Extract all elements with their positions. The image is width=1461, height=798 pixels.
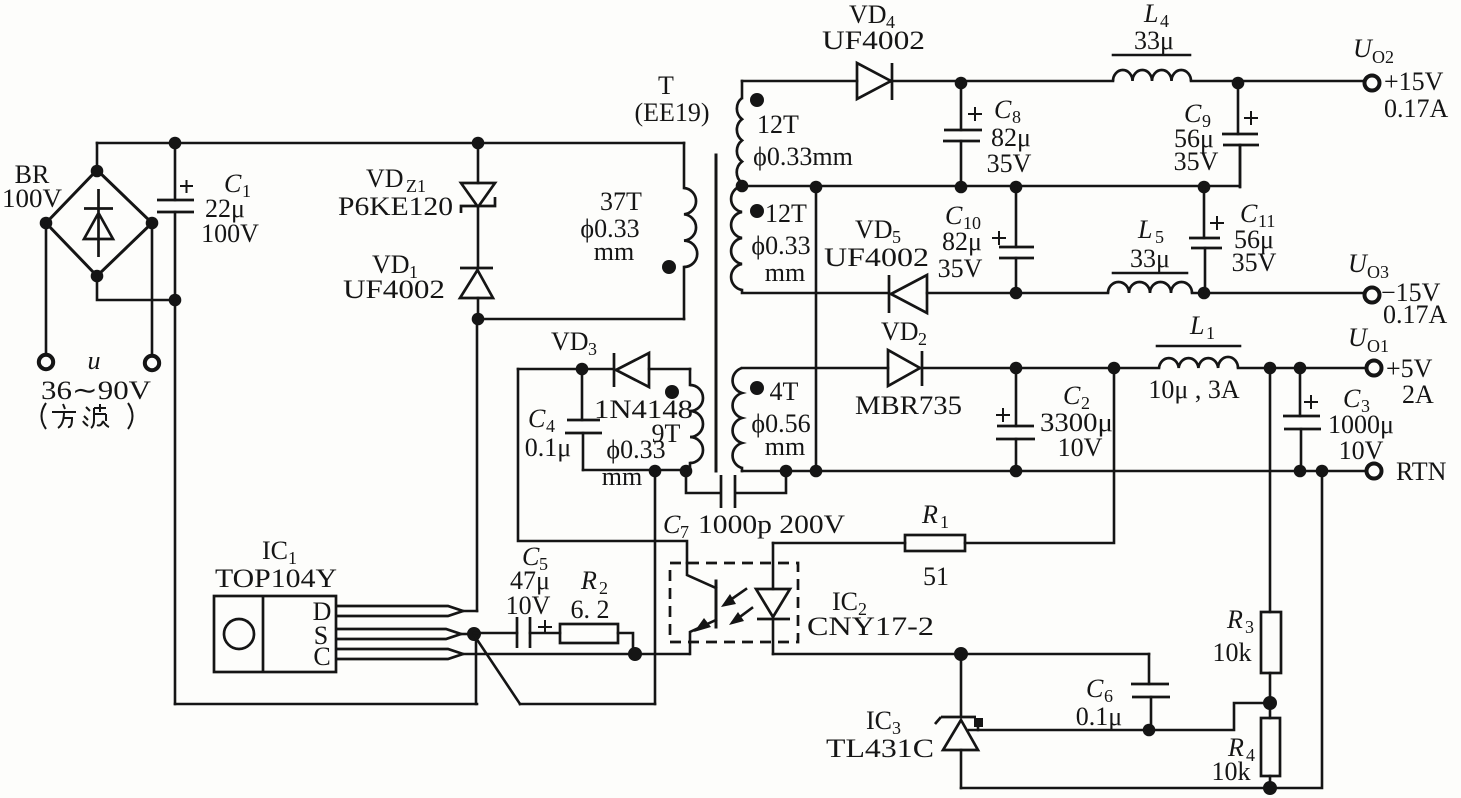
- svg-text:VD: VD: [551, 327, 589, 356]
- svg-text:2A: 2A: [1402, 380, 1434, 409]
- label C1 22u 100V: [201, 169, 259, 248]
- inductor L1 10u 3A: [1157, 346, 1240, 368]
- svg-text:VD: VD: [366, 164, 404, 193]
- wire collector link from VD3 node: [518, 369, 687, 563]
- optocoupler IC2 dashed box: [670, 563, 798, 642]
- label L4 33u: [1134, 0, 1174, 55]
- svg-text:1: 1: [940, 512, 949, 532]
- diode VD5 UF4002: [889, 275, 927, 313]
- pin D lead: [336, 606, 477, 616]
- label C9 56u 35V: [1174, 99, 1219, 176]
- label UO2 +15V 0.17A: [1353, 34, 1449, 123]
- inductor L4 33u: [1113, 55, 1191, 81]
- label L1 10u 3A: [1148, 311, 1239, 404]
- node RTN C3 bottom: [1294, 465, 1307, 478]
- node C8 top: [955, 77, 968, 90]
- capacitor C8 82u 35V: [943, 81, 982, 187]
- svg-text:TOP104Y: TOP104Y: [215, 564, 337, 593]
- capacitor C6 0.1u: [1131, 654, 1170, 730]
- node R2 to control: [628, 647, 642, 661]
- label IC1 TOP104Y: [215, 536, 337, 593]
- svg-text:0.1μ: 0.1μ: [525, 433, 571, 462]
- wire bias return riser to bottom rail: [654, 471, 657, 704]
- svg-text:C: C: [1086, 674, 1104, 703]
- svg-text:33μ: 33μ: [1130, 244, 1170, 273]
- pin S lead: [336, 629, 474, 639]
- svg-text:+5V: +5V: [1386, 354, 1433, 383]
- bias winding 9T: [690, 369, 703, 470]
- svg-text:7: 7: [680, 522, 689, 542]
- label u 36~90V (square wave): [41, 346, 151, 405]
- svg-text:IC: IC: [866, 706, 892, 735]
- svg-text:10k: 10k: [1212, 757, 1251, 786]
- shunt regulator IC3 TL431C: [935, 654, 983, 788]
- node TL431 cathode junction: [954, 647, 968, 661]
- svg-text:C: C: [945, 201, 963, 230]
- svg-text:VD: VD: [849, 0, 887, 29]
- label R3 10k: [1213, 605, 1255, 667]
- label BR 100V: [2, 160, 62, 213]
- node RTN feedback riser: [1316, 465, 1329, 478]
- svg-text:35V: 35V: [1232, 248, 1277, 277]
- diode VD1 UF4002: [460, 268, 493, 319]
- svg-text:+15V: +15V: [1384, 67, 1444, 96]
- svg-text:0.1μ: 0.1μ: [1076, 702, 1122, 731]
- primary phasing dot: [662, 260, 676, 274]
- capacitor C5 47u 10V: [474, 617, 560, 648]
- svg-text:ϕ0.33: ϕ0.33: [751, 231, 810, 260]
- wire drain riser to IC1 D pin: [476, 319, 479, 611]
- svg-text:T: T: [658, 71, 674, 100]
- svg-text:1000μ: 1000μ: [1328, 410, 1394, 439]
- svg-text:U: U: [1353, 34, 1374, 63]
- label C8 82u 35V: [987, 95, 1032, 178]
- svg-text:u: u: [88, 346, 101, 375]
- zener VDZ1 P6KE120: [461, 143, 495, 268]
- svg-text:ϕ0.33: ϕ0.33: [606, 435, 665, 464]
- svg-text:10V: 10V: [1058, 433, 1103, 462]
- label T (EE19): [634, 71, 709, 127]
- svg-text:UF4002: UF4002: [343, 275, 445, 304]
- svg-text:82μ: 82μ: [991, 123, 1031, 152]
- transformer core: [715, 155, 718, 471]
- resistor R2 6.2: [560, 624, 633, 654]
- label RTN: [1396, 457, 1447, 486]
- node R1 riser top: [1108, 362, 1121, 375]
- label VDZ1 P6KE120: [338, 164, 453, 221]
- svg-text:33μ: 33μ: [1134, 26, 1174, 55]
- pin C label: [313, 642, 330, 671]
- svg-text:C: C: [1343, 384, 1361, 413]
- svg-text:R: R: [921, 500, 938, 529]
- svg-text:35V: 35V: [1174, 147, 1219, 176]
- label UO3 -15V 0.17A: [1348, 249, 1448, 329]
- wire feedback bottom rail: [961, 471, 1322, 788]
- transformer T primary winding 37T: [684, 143, 697, 319]
- svg-text:82μ: 82μ: [942, 227, 982, 256]
- svg-text:100V: 100V: [201, 219, 259, 248]
- node C3 top: [1294, 362, 1307, 375]
- node rail2 C10 top: [1010, 181, 1023, 194]
- wire +15V rail: [742, 80, 1364, 83]
- svg-text:C: C: [313, 642, 330, 671]
- wire source riser to bottom rail: [475, 634, 478, 704]
- svg-text:12T: 12T: [757, 110, 799, 139]
- svg-text:L: L: [1189, 311, 1204, 340]
- secondary winding 12T (top): [737, 81, 742, 183]
- pin C lead: [336, 649, 463, 659]
- capacitor C2 3300u 10V: [996, 368, 1035, 471]
- wire 0V rail (15V common): [742, 145, 1240, 187]
- label C10 82u 35V: [938, 201, 983, 283]
- svg-text:36∼90V: 36∼90V: [41, 376, 151, 405]
- label R1 51: [921, 500, 949, 591]
- wire RTN rail: [742, 470, 1366, 473]
- node rail2 C8 bottom: [955, 181, 968, 194]
- svg-text:VD: VD: [855, 215, 893, 244]
- pin D label: [313, 597, 332, 626]
- label IC3 TL431C: [826, 706, 934, 763]
- svg-text:10μ , 3A: 10μ , 3A: [1148, 375, 1239, 404]
- svg-text:10V: 10V: [506, 591, 551, 620]
- svg-text:10k: 10k: [1213, 638, 1252, 667]
- wire bridge AC leads: [46, 223, 152, 356]
- phasing dot 12T top: [750, 93, 764, 107]
- svg-text:U: U: [1348, 323, 1369, 352]
- svg-text:4T: 4T: [770, 377, 799, 406]
- label 12T phi0.33 mm (bottom): [751, 199, 810, 287]
- resistor R1 51: [905, 535, 965, 551]
- inductor L5 33u: [1108, 273, 1192, 293]
- svg-text:R: R: [1226, 605, 1243, 634]
- wire control line: [463, 653, 689, 656]
- svg-text:(EE19): (EE19): [634, 98, 709, 127]
- svg-text:MBR735: MBR735: [855, 391, 962, 420]
- label 37T phi0.33 mm: [580, 187, 642, 266]
- svg-text:UF4002: UF4002: [824, 243, 929, 272]
- wire -15V rail: [742, 290, 1364, 293]
- svg-text:2: 2: [918, 329, 927, 349]
- output terminal UO1: [1367, 361, 1382, 376]
- svg-text:IC: IC: [262, 536, 288, 565]
- secondary winding 4T: [733, 368, 742, 471]
- capacitor C1 22u 100V: [157, 137, 194, 307]
- input terminal left: [39, 355, 53, 369]
- capacitor C11 56u 35V: [1189, 187, 1224, 293]
- svg-text:O1: O1: [1367, 336, 1389, 356]
- svg-text:R: R: [580, 566, 597, 595]
- opto light arrows: [721, 589, 752, 625]
- svg-text:mm: mm: [594, 237, 634, 266]
- wire R3 riser: [1269, 368, 1272, 612]
- node C9 top: [1232, 77, 1245, 90]
- label C3 1000u 10V: [1328, 384, 1394, 465]
- label C5 47u 10V: [506, 542, 551, 620]
- svg-text:L: L: [1143, 0, 1158, 28]
- svg-text:0.17A: 0.17A: [1383, 300, 1448, 329]
- label VD1 UF4002: [343, 250, 445, 304]
- svg-text:1000p 200V: 1000p 200V: [698, 510, 845, 539]
- svg-text:6. 2: 6. 2: [571, 595, 610, 624]
- label 9T phi0.33 mm: [602, 419, 681, 491]
- phasing dot 9T: [665, 385, 679, 399]
- svg-text:37T: 37T: [600, 187, 642, 216]
- svg-text:100V: 100V: [2, 184, 62, 213]
- wire mid-tap riser to RTN: [815, 187, 818, 471]
- output terminal UO3: [1365, 288, 1380, 303]
- label 4T phi0.56 mm: [751, 377, 810, 461]
- node mid-tap windings A/B: [736, 180, 749, 193]
- wire bridge negative to C1 bottom: [97, 276, 175, 300]
- svg-text:1: 1: [1206, 323, 1215, 343]
- opto LED: [756, 543, 790, 654]
- svg-text:O2: O2: [1372, 47, 1394, 67]
- diode VD4 UF4002: [857, 63, 892, 100]
- svg-text:U: U: [1348, 249, 1369, 278]
- diode VD2 MBR735: [888, 350, 922, 386]
- node C10 bottom: [1010, 287, 1023, 300]
- node RTN C7: [780, 465, 793, 478]
- wire +5V rail: [742, 367, 1364, 370]
- svg-text:C: C: [994, 95, 1012, 124]
- node C11 bottom: [1198, 287, 1211, 300]
- diode VD3 1N4148: [518, 353, 690, 387]
- label C7 1000p 200V: [663, 510, 845, 542]
- IC1 TOP104Y package: [214, 596, 336, 672]
- resistor R3 10k: [1261, 612, 1281, 703]
- label C6 0.1u: [1076, 674, 1122, 731]
- wire bottom rail left segment: [175, 703, 477, 706]
- svg-text:0.17A: 0.17A: [1384, 94, 1449, 123]
- svg-text:L: L: [1137, 215, 1152, 244]
- svg-text:35V: 35V: [987, 149, 1032, 178]
- svg-text:ϕ0.33mm: ϕ0.33mm: [753, 142, 853, 171]
- label VD2 MBR735: [855, 317, 962, 420]
- output terminal UO2: [1365, 76, 1380, 91]
- bridge rectifier BR: [40, 143, 159, 282]
- phasing dot 4T: [750, 381, 764, 395]
- svg-text:C: C: [1063, 381, 1081, 410]
- svg-text:P6KE120: P6KE120: [338, 192, 453, 221]
- output terminal RTN: [1367, 464, 1382, 479]
- node C6 bottom: [1143, 724, 1156, 737]
- svg-text:mm: mm: [602, 462, 642, 491]
- label R2 6.2: [571, 566, 610, 624]
- svg-text:RTN: RTN: [1396, 457, 1447, 486]
- capacitor C3 1000u 10V: [1283, 368, 1321, 471]
- node RTN mid-tap riser: [810, 465, 823, 478]
- label L5 33u: [1130, 215, 1170, 273]
- resistor R4 10k: [1261, 703, 1280, 788]
- svg-text:3: 3: [1245, 617, 1254, 637]
- wire clamp node to primary bottom: [478, 318, 684, 321]
- node clamp / primary bottom / drain: [472, 313, 485, 326]
- label R4 10k: [1212, 733, 1256, 786]
- svg-text:C: C: [663, 510, 681, 539]
- capacitor C10 82u 35V: [992, 187, 1034, 293]
- node R4 bottom: [1263, 781, 1277, 795]
- wire LED cathode line: [773, 653, 1149, 656]
- svg-text:UF4002: UF4002: [822, 26, 925, 55]
- svg-text:35V: 35V: [938, 254, 983, 283]
- node R3/R4 junction: [1263, 696, 1277, 710]
- svg-text:C: C: [528, 404, 546, 433]
- node R3 riser top: [1264, 362, 1277, 375]
- label UO1 +5V 2A: [1348, 323, 1434, 409]
- pin S label: [314, 621, 328, 650]
- capacitor C4 0.1u: [565, 363, 602, 470]
- secondary winding 12T (bottom): [731, 186, 742, 290]
- node source pin: [467, 627, 481, 641]
- wire bottom rail right segment: [520, 703, 655, 706]
- node top rail / clamp junction: [472, 137, 485, 150]
- node C2 top: [1010, 362, 1023, 375]
- wire top rail (DC bus): [97, 142, 684, 145]
- svg-text:mm: mm: [765, 432, 805, 461]
- svg-text:51: 51: [923, 562, 949, 591]
- wire TL431 ref line: [969, 703, 1270, 730]
- wire R1 to +5V riser: [965, 368, 1114, 543]
- label C11 56u 35V: [1232, 199, 1277, 277]
- svg-text:3: 3: [588, 339, 597, 359]
- node rail2 mid-tap riser: [810, 181, 823, 194]
- label VD3 1N4148: [551, 327, 693, 424]
- wire source diagonal to bottom rail right: [474, 635, 520, 704]
- node bias return to C7: [680, 465, 693, 478]
- input terminal right: [145, 356, 159, 370]
- svg-text:CNY17-2: CNY17-2: [807, 612, 934, 641]
- svg-text:10V: 10V: [1339, 436, 1384, 465]
- node RTN C2 bottom: [1010, 465, 1023, 478]
- label VD5 UF4002: [824, 215, 929, 272]
- capacitor C7 1000p 200V: [686, 471, 786, 508]
- wire bias return: [583, 469, 690, 472]
- capacitor C9 56u 35V: [1222, 81, 1259, 187]
- opto phototransistor: [687, 563, 716, 654]
- wire primary ground left drop: [174, 300, 177, 704]
- label VD4 UF4002: [822, 0, 925, 55]
- node bias return to source: [649, 465, 662, 478]
- label C2 3300u 10V: [1040, 381, 1113, 462]
- node rail2 C11 top: [1198, 181, 1211, 194]
- svg-text:mm: mm: [765, 258, 805, 287]
- label 12T phi0.33mm: [753, 110, 853, 171]
- svg-text:VD: VD: [881, 317, 919, 346]
- phasing dot 12T bottom: [750, 204, 764, 218]
- label (fang-bo square wave) drawn strokes: [42, 403, 133, 429]
- svg-text:C: C: [1240, 199, 1258, 228]
- wire LED anode to R1: [773, 542, 905, 545]
- svg-text:12T: 12T: [765, 199, 807, 228]
- svg-text:TL431C: TL431C: [826, 734, 934, 763]
- label C4 0.1u: [525, 404, 571, 462]
- label IC2 CNY17-2: [807, 587, 934, 641]
